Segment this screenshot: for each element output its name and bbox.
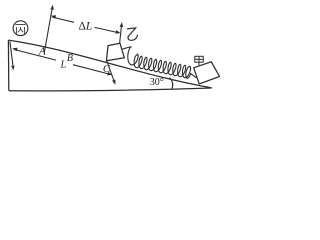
ΔL left arrowhead <box>51 15 56 19</box>
down arrow at top vertex <box>10 42 13 66</box>
L left arrowhead <box>12 48 17 52</box>
ΔL line right segment <box>95 27 118 32</box>
L right arrowhead <box>107 72 112 75</box>
ΔL right arrowhead <box>115 30 120 34</box>
乙 character strokes <box>127 28 138 40</box>
angle arc <box>170 78 173 89</box>
丙 character strokes <box>15 25 25 34</box>
甲 character strokes <box>195 56 203 65</box>
L line left segment <box>14 49 56 60</box>
svg-text:B: B <box>67 53 73 64</box>
ground bottom edge <box>9 88 212 91</box>
up arrow at point A <box>44 10 52 53</box>
incline surface (hypotenuse) <box>8 40 211 88</box>
L line right segment <box>73 65 109 74</box>
svg-text:30°: 30° <box>150 77 164 88</box>
block 甲 (square at bottom) <box>194 62 220 84</box>
down arrow at point C <box>107 61 114 82</box>
block 乙 (small square) <box>106 43 124 61</box>
svg-text:L: L <box>60 59 67 70</box>
incline left vertical edge <box>7 40 9 91</box>
spring (coils between 乙 and 甲) <box>122 47 196 79</box>
up arrow from block 乙 <box>120 27 122 44</box>
svg-text:ΔL: ΔL <box>79 21 93 33</box>
ball 丙 (circle) <box>13 21 28 36</box>
ΔL line left segment <box>52 17 74 22</box>
